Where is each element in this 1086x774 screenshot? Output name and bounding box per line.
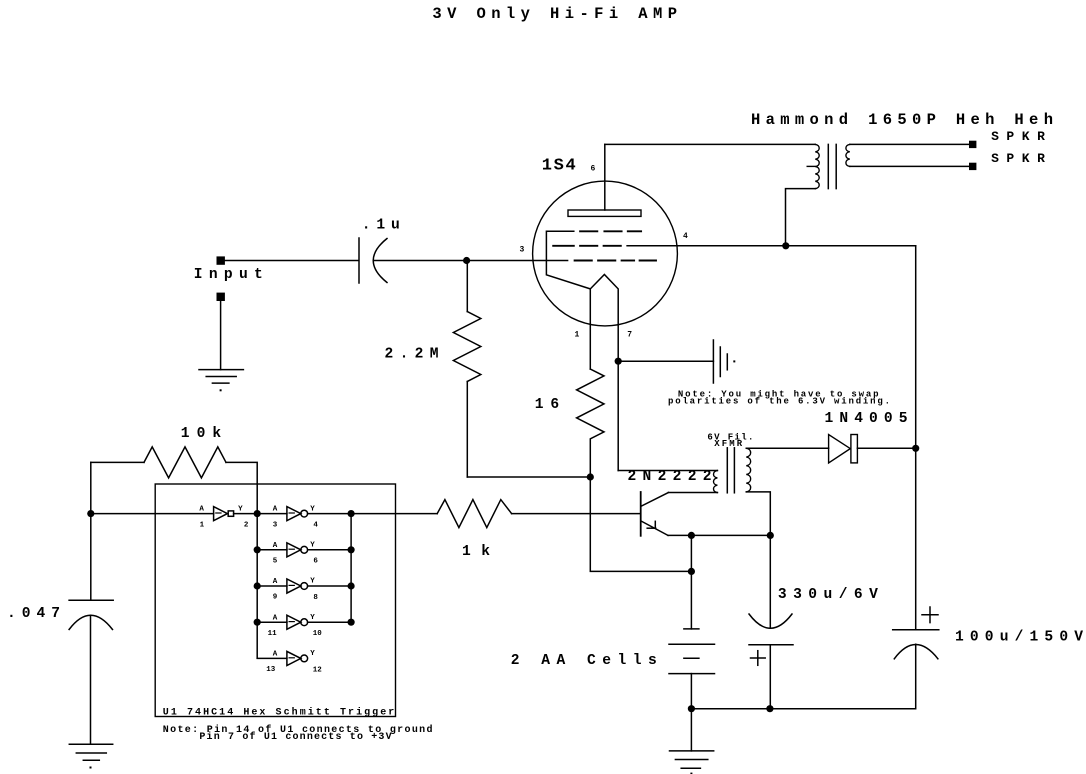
svg-text:1N4005: 1N4005 <box>825 411 908 427</box>
inverter U1F (pins 13,12) spare <box>257 651 307 665</box>
inverter U1E (pins 11,10) <box>257 615 351 629</box>
wire 1k to Q1 base <box>512 513 641 515</box>
transformer T2 primary (6V winding) <box>714 471 718 493</box>
node K junction (battery minus / ground) <box>688 705 695 712</box>
svg-text:10k: 10k <box>181 426 222 442</box>
node J junction (330u / rail) <box>766 705 773 712</box>
inverter U1C (pins 5,6) <box>257 543 351 557</box>
wire shield pad to ground <box>220 301 222 370</box>
svg-text:8: 8 <box>313 594 318 602</box>
inverter U1D (pins 9,8) <box>257 579 351 593</box>
U1A labels <box>199 505 249 529</box>
svg-text:U1 74HC14 Hex Schmitt Trigger: U1 74HC14 Hex Schmitt Trigger <box>163 707 394 719</box>
resistor 1k <box>437 500 511 528</box>
svg-text:Y: Y <box>310 650 315 658</box>
node D junction (B+ / diode) <box>912 445 919 452</box>
wire node A to tube grid pin 3 <box>467 260 568 262</box>
wire node B down and right to emitter/battery node <box>590 477 691 571</box>
node junctions inv C <box>254 546 261 553</box>
node B junction (2.2M / 16 / down) <box>587 473 594 480</box>
wire secondary bottom to SPKR <box>850 165 969 167</box>
svg-text:2N2222: 2N2222 <box>628 469 712 485</box>
svg-text:1: 1 <box>575 330 580 339</box>
suppressor grid (dashed) with internal strap <box>580 230 641 232</box>
wire 330u bottom to ground rail <box>769 645 771 709</box>
wire node C to B+ rail <box>786 245 916 247</box>
resistor 10k <box>91 447 257 514</box>
primary tap stub <box>807 165 815 167</box>
transformer T1 secondary winding <box>846 144 850 166</box>
svg-text:A: A <box>273 542 278 550</box>
svg-text:12: 12 <box>313 666 323 674</box>
inverter U1A (pins 1,2) <box>214 507 258 521</box>
capacitor C .1u <box>359 238 387 283</box>
node A junction <box>463 257 470 264</box>
wire .047 to ground <box>90 615 92 744</box>
svg-text:A: A <box>273 506 278 514</box>
wire node F down to 330u <box>769 535 771 628</box>
svg-text:5: 5 <box>273 558 278 566</box>
bottom ground rail <box>691 644 915 709</box>
resistor 2.2M <box>453 261 480 478</box>
transformer T2 secondary (HV winding) <box>746 448 750 492</box>
node C junction (screen/B+) <box>782 242 789 249</box>
battery BT1 2 AA Cells <box>669 571 715 708</box>
IC U1 74HC14 box <box>155 484 395 717</box>
ground (battery) <box>670 709 714 774</box>
wire node H to inverter 1 input <box>91 513 214 515</box>
svg-text:Y: Y <box>238 505 243 513</box>
transformer T1 primary winding <box>815 144 819 188</box>
svg-text:Pin 7 of U1 connects to +3V: Pin 7 of U1 connects to +3V <box>199 731 391 743</box>
node H junction (10k left / .047 / U1 input) <box>87 510 94 517</box>
node G junction (battery top) <box>688 568 695 575</box>
transformer T1 core <box>828 144 836 188</box>
svg-text:A: A <box>199 506 204 514</box>
resistor 16 (filament dropping) <box>577 369 604 477</box>
tube plate (anode) <box>568 210 641 216</box>
svg-text:Input: Input <box>194 267 263 283</box>
plus sign 100u <box>922 607 938 623</box>
input terminal pad (hot) <box>217 256 225 264</box>
svg-text:.1u: .1u <box>362 218 400 234</box>
diode D1 1N4005 <box>829 435 858 463</box>
screen grid (dashed) pin 4 <box>553 245 621 247</box>
wire primary bottom to node C <box>786 189 816 246</box>
U1F labels <box>266 650 322 674</box>
svg-text:9: 9 <box>273 594 278 602</box>
transformer T2 core <box>727 448 734 493</box>
svg-text:1k: 1k <box>462 544 490 560</box>
svg-text:Y: Y <box>310 542 315 550</box>
input terminal pad (shield) <box>217 293 225 301</box>
svg-text:SPKR: SPKR <box>991 129 1045 144</box>
U1 input rail <box>256 514 258 659</box>
transistor Q1 2N2222 <box>641 492 669 536</box>
plus sign 330u <box>751 651 766 666</box>
svg-text:A: A <box>273 651 278 659</box>
svg-text:330u/6V: 330u/6V <box>778 587 878 603</box>
capacitor 100u/150V <box>893 630 939 659</box>
node pin7 junction <box>615 358 622 365</box>
wire 2.2M bottom to node B <box>467 476 590 478</box>
wire fil secondary to diode anode <box>746 447 828 449</box>
U1C labels <box>273 542 319 566</box>
control grid (dashed) <box>575 260 656 262</box>
inverter U1B (pins 3,4) <box>257 507 351 521</box>
svg-text:A: A <box>273 614 278 622</box>
svg-text:13: 13 <box>266 666 276 674</box>
SPKR terminal pad bottom <box>969 163 976 170</box>
node I junction (inv1 out / 10k / inv inputs) <box>254 510 261 517</box>
svg-text:2: 2 <box>244 522 249 530</box>
wire T2 primary bottom to collector <box>668 492 717 494</box>
svg-text:7: 7 <box>627 330 632 339</box>
wire secondary top to SPKR <box>850 143 969 145</box>
node F junction (330u top) <box>767 532 774 539</box>
svg-text:Hammond 1650P Heh Heh: Hammond 1650P Heh Heh <box>751 111 1053 129</box>
U1D labels <box>273 578 319 602</box>
svg-text:2.2M: 2.2M <box>385 346 439 362</box>
node junctions inv D <box>254 582 261 589</box>
ground (bottom left) <box>69 744 112 768</box>
svg-text:XFMR: XFMR <box>714 439 743 449</box>
svg-text:1S4: 1S4 <box>542 157 576 176</box>
node E junction (emitter/battery) <box>688 532 695 539</box>
wire C1 to node A <box>373 260 466 262</box>
svg-text:2 AA Cells: 2 AA Cells <box>511 653 657 669</box>
filament with pin 1 and pin 7 leads <box>590 275 618 471</box>
ground (input) <box>199 370 243 392</box>
SPKR terminal pad top <box>969 141 976 148</box>
svg-text:3V Only Hi-Fi AMP: 3V Only Hi-Fi AMP <box>432 5 677 23</box>
node junction inv B out <box>348 510 355 517</box>
svg-text:11: 11 <box>268 630 278 638</box>
wire pin7 to chassis ground <box>618 360 713 362</box>
svg-text:1: 1 <box>200 521 205 529</box>
svg-text:6: 6 <box>591 164 596 173</box>
U1E labels <box>268 614 323 638</box>
wire screen grid to pin 4 out <box>627 245 786 247</box>
svg-text:6: 6 <box>313 558 318 566</box>
U1B labels <box>273 505 319 529</box>
svg-text:4: 4 <box>313 522 318 530</box>
plate lead pin 6 <box>604 144 606 210</box>
wire node E down to battery node <box>690 535 692 571</box>
ground (chassis, sideways) <box>713 340 735 383</box>
node junctions inv E <box>254 619 261 626</box>
capacitor 330u/6V <box>749 614 793 645</box>
svg-text:Y: Y <box>310 505 315 513</box>
svg-text:SPKR: SPKR <box>991 151 1045 166</box>
wire U1 output to 1k <box>351 513 437 515</box>
svg-text:Y: Y <box>310 578 315 586</box>
svg-text:4: 4 <box>683 232 688 241</box>
svg-text:16: 16 <box>535 397 559 413</box>
wire T2 secondary bottom to emitter rail <box>746 492 770 536</box>
wire emitter rail <box>668 534 770 536</box>
svg-text:100u/150V: 100u/150V <box>955 630 1083 646</box>
wire diode cathode to node D <box>857 447 915 449</box>
U1 output rail <box>350 514 352 622</box>
wire pin7 down to T2 primary top <box>618 470 717 472</box>
B+ rail down right side <box>915 246 917 630</box>
svg-text:10: 10 <box>313 630 323 638</box>
tube V1 1S4 envelope <box>533 181 678 326</box>
wire left rail down to .047 <box>90 462 92 600</box>
suppressor strap to filament <box>546 231 590 289</box>
svg-text:3: 3 <box>273 521 278 529</box>
svg-text:A: A <box>273 578 278 586</box>
svg-text:3: 3 <box>520 246 525 255</box>
capacitor C .047 <box>69 600 113 629</box>
wire input pad to C1 <box>225 260 358 262</box>
wire plate to output transformer primary <box>605 143 816 145</box>
svg-text:.047: .047 <box>7 606 60 622</box>
svg-text:polarities of the 6.3V winding: polarities of the 6.3V winding. <box>668 397 890 407</box>
svg-text:Y: Y <box>310 614 315 622</box>
